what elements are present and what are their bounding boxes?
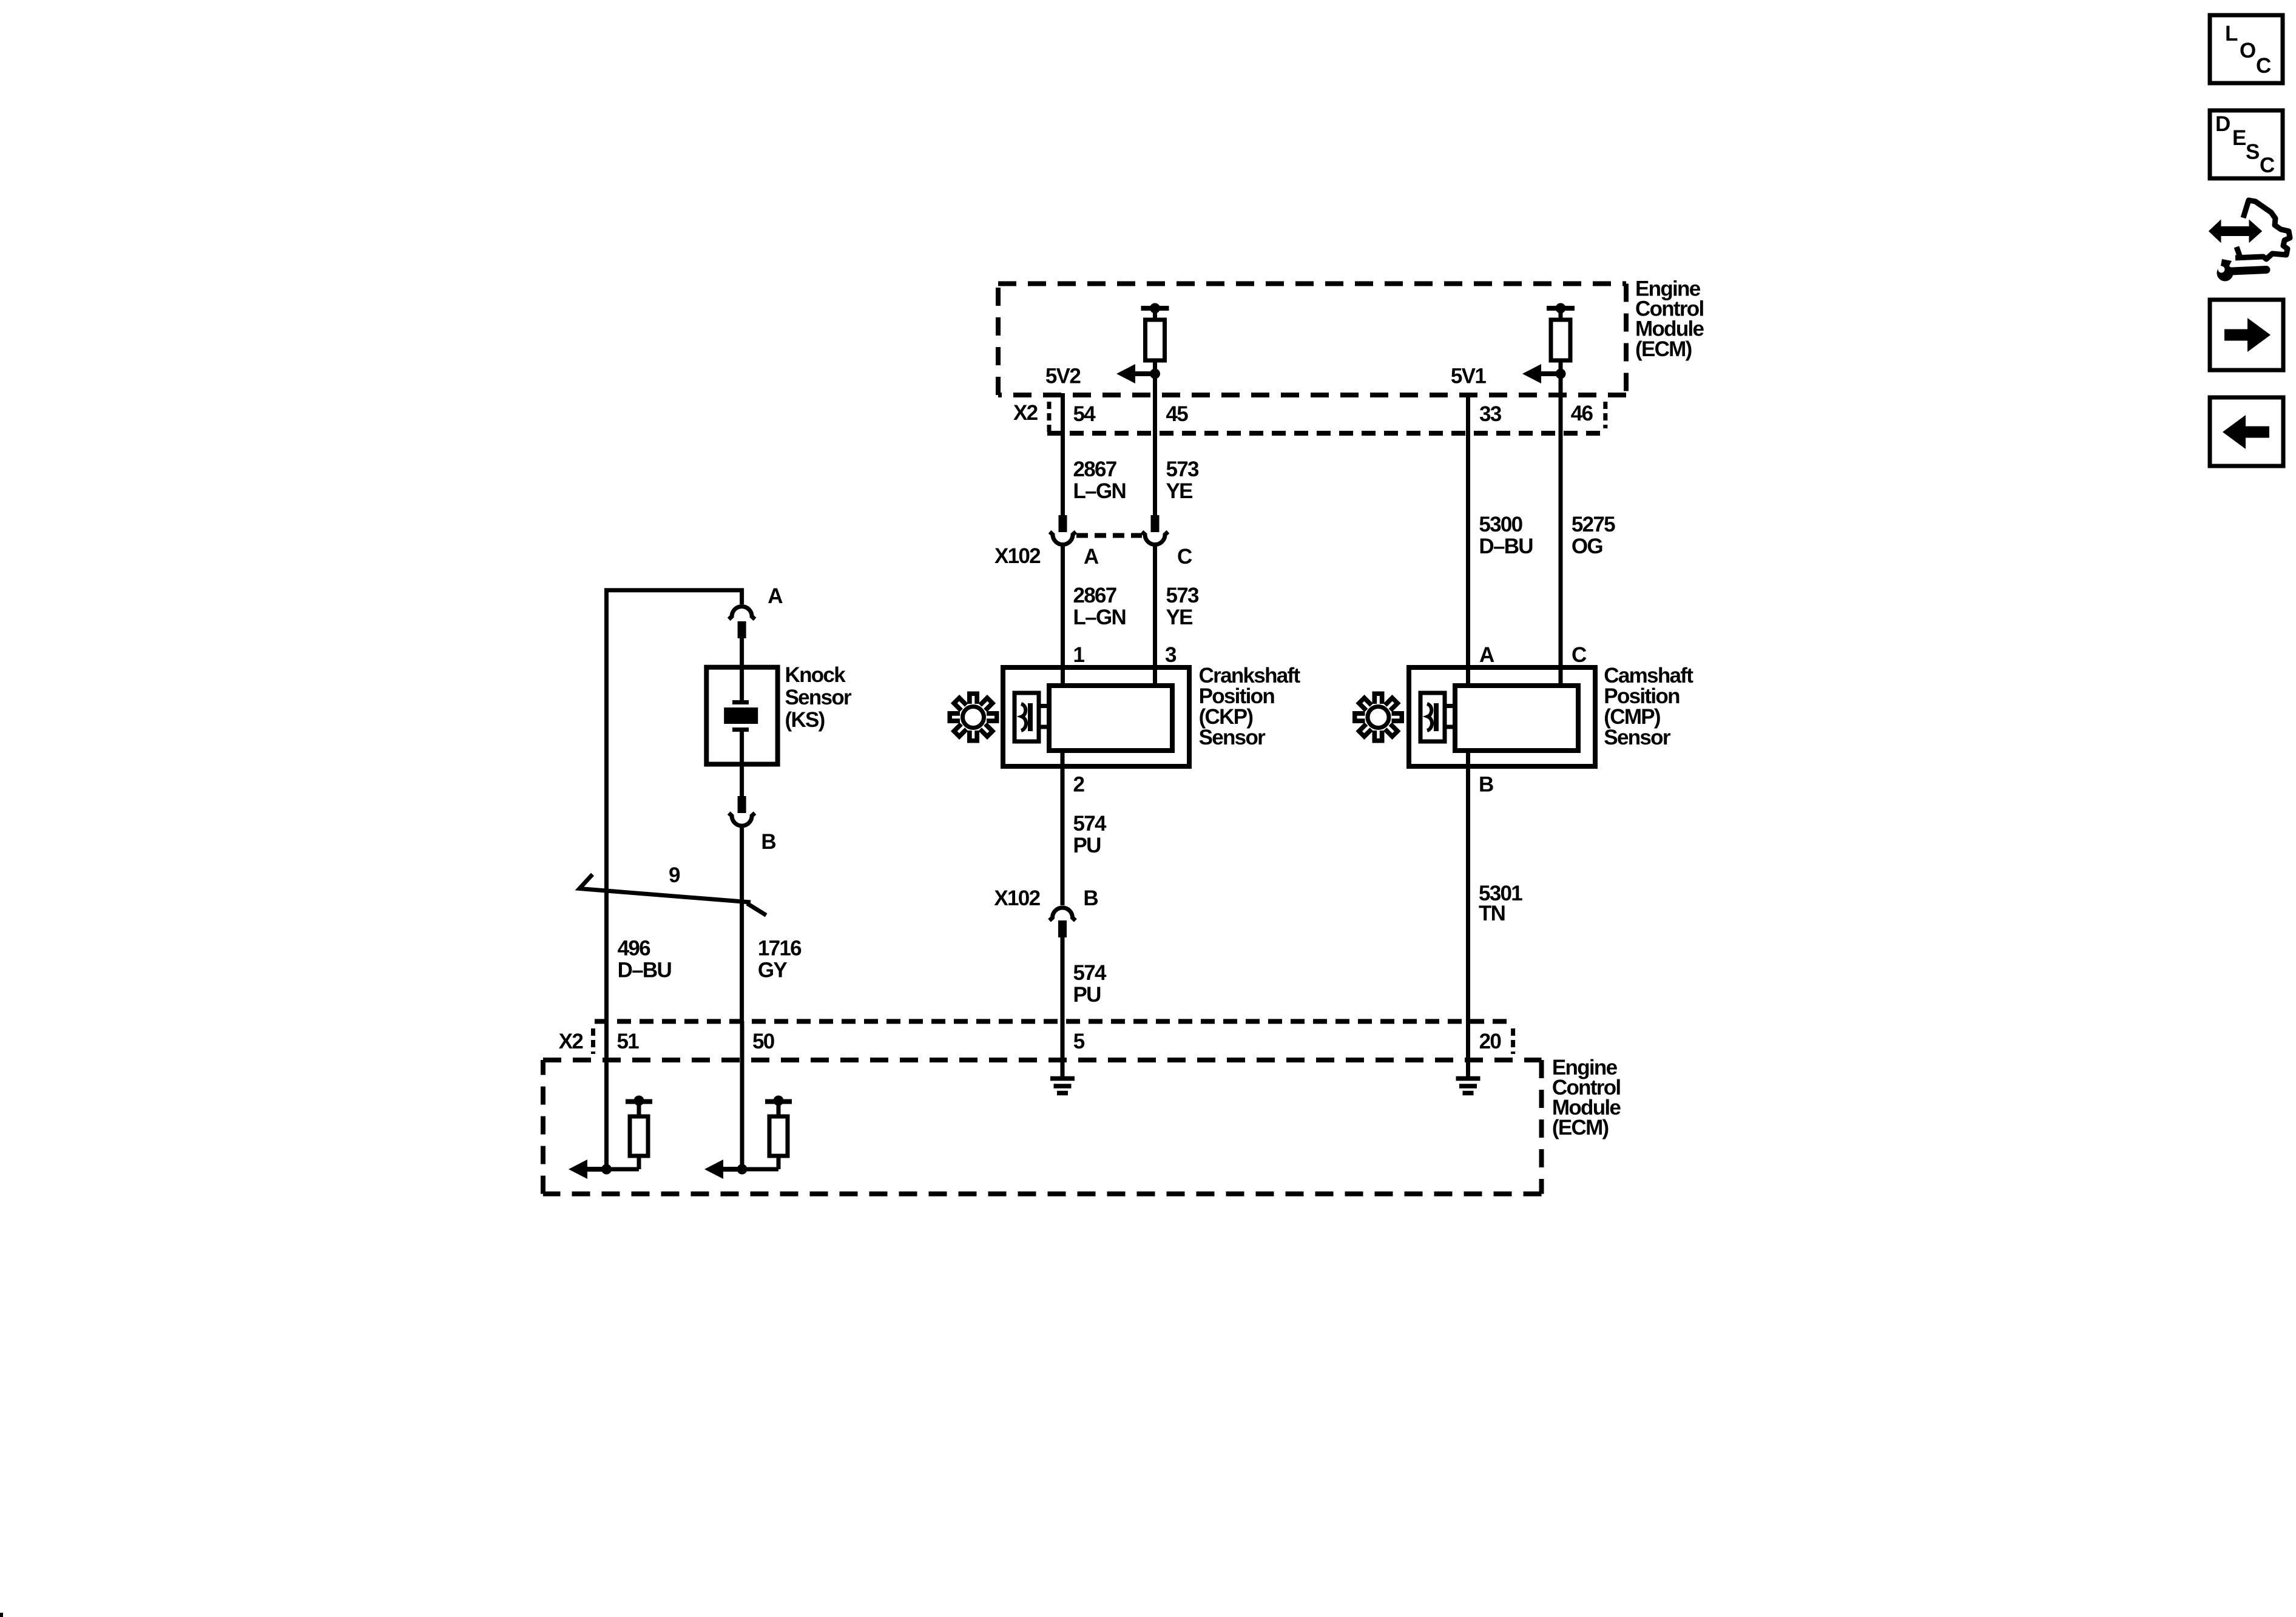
- label circuit 496 D-BU: [618, 937, 672, 982]
- wire X2 pin 5 to ground: [1061, 1021, 1065, 1079]
- svg-text:51: 51: [617, 1030, 640, 1053]
- svg-text:YE: YE: [1166, 479, 1193, 503]
- svg-text:Sensor: Sensor: [785, 686, 853, 709]
- icon box LOC: [2210, 15, 2283, 83]
- wire CKP pin 2 to X102 B: [1061, 751, 1065, 905]
- svg-text:9: 9: [669, 863, 680, 887]
- CKP sensor outer box: [1003, 667, 1189, 766]
- wire pin 54 (5V2 to X102 A): [1061, 393, 1065, 516]
- wire pin 45 (resistor to X102 C): [1153, 360, 1157, 516]
- connector KS pin A cup: [729, 607, 755, 619]
- twisted pair marker 9: [579, 874, 766, 915]
- CMP sensor outer box: [1409, 667, 1595, 766]
- connector X2 bottom row: [593, 1021, 1513, 1054]
- connector X2 top row: [1047, 402, 1608, 433]
- label circuit 5300 D-BU: [1479, 513, 1533, 558]
- svg-text:2: 2: [1073, 773, 1085, 797]
- svg-text:Sensor: Sensor: [1604, 726, 1671, 749]
- resistor bias on pin 51: [607, 1096, 653, 1170]
- svg-text:574: 574: [1073, 961, 1107, 985]
- wire CMP pin B to X2 pin 20 (5301 TN): [1466, 751, 1470, 1021]
- svg-text:46: 46: [1571, 402, 1593, 425]
- CMP sensor element box: [1455, 686, 1578, 751]
- ground pin 5: [1050, 1079, 1075, 1093]
- svg-text:D–BU: D–BU: [618, 959, 672, 982]
- svg-text:5V1: 5V1: [1451, 365, 1486, 388]
- svg-text:5275: 5275: [1572, 513, 1615, 536]
- wire knock sensor loop (pin A to ECM pin 51): [607, 590, 742, 1021]
- svg-text:20: 20: [1479, 1030, 1502, 1053]
- svg-text:45: 45: [1166, 402, 1189, 426]
- junction dot wire 45: [1150, 369, 1160, 379]
- ECM bottom dashed box: [543, 1060, 1542, 1194]
- svg-text:TN: TN: [1479, 902, 1505, 925]
- ground pin 20: [1456, 1079, 1481, 1093]
- junction dot pin 51: [601, 1164, 612, 1175]
- wire X2 pin 20 to ground: [1466, 1021, 1470, 1079]
- label circuit 2867 L-GN (upper): [1073, 457, 1126, 503]
- label circuit 5275 OG: [1572, 513, 1615, 558]
- label circuit 1716 GY: [758, 937, 802, 982]
- svg-text:(ECM): (ECM): [1635, 337, 1692, 361]
- svg-text:B: B: [761, 830, 775, 854]
- svg-text:A: A: [1479, 643, 1494, 667]
- svg-text:A: A: [1084, 545, 1099, 569]
- svg-text:E: E: [2232, 126, 2246, 150]
- svg-text:PU: PU: [1073, 983, 1101, 1007]
- signal arrow 5V1 reference: [1522, 364, 1560, 383]
- icon box forward arrow: [2210, 300, 2283, 370]
- label Knock Sensor (KS): [785, 663, 853, 732]
- svg-text:5300: 5300: [1479, 513, 1522, 536]
- icon box back arrow: [2210, 397, 2283, 466]
- CMP pickup coil box: [1420, 693, 1455, 741]
- svg-text:54: 54: [1073, 402, 1096, 426]
- svg-text:L: L: [2225, 22, 2238, 46]
- svg-text:C: C: [2256, 54, 2271, 78]
- Knock Sensor box: [706, 667, 777, 765]
- ECM top dashed box: [998, 284, 1626, 396]
- wire X102 C to CKP pin 3: [1153, 544, 1157, 686]
- svg-text:L–GN: L–GN: [1073, 479, 1126, 503]
- wire X2 pin 50 (1716 GY) into ECM: [740, 1021, 745, 1169]
- svg-text:573: 573: [1166, 584, 1200, 607]
- svg-text:B: B: [1479, 773, 1493, 797]
- svg-text:C: C: [1177, 545, 1192, 569]
- resistor pull-up on 5V1 circuit: [1547, 303, 1575, 361]
- label Engine Control Module (ECM) top: [1635, 277, 1704, 361]
- svg-text:X102: X102: [994, 886, 1040, 910]
- svg-text:PU: PU: [1073, 834, 1101, 857]
- CKP pickup coil box: [1015, 693, 1049, 741]
- svg-text:5: 5: [1073, 1030, 1085, 1053]
- icon connector service (arrow, connector outline, wrench): [2210, 200, 2290, 282]
- svg-text:Knock: Knock: [785, 663, 846, 687]
- label circuit 574 PU (lower): [1073, 961, 1107, 1007]
- svg-text:GY: GY: [758, 959, 788, 982]
- connector X102 pin C cup: [1142, 532, 1168, 545]
- svg-text:L–GN: L–GN: [1073, 606, 1126, 629]
- svg-text:1: 1: [1073, 643, 1085, 667]
- svg-text:1716: 1716: [758, 937, 802, 960]
- svg-text:X2: X2: [1013, 401, 1038, 425]
- svg-text:2867: 2867: [1073, 457, 1116, 481]
- signal arrow KS-: [704, 1160, 741, 1179]
- CKP reluctor gear icon: [948, 692, 999, 743]
- resistor pull-up on 5V2 circuit: [1141, 303, 1169, 361]
- dashed link X102 A to C: [1076, 533, 1142, 538]
- signal arrow KS+: [569, 1160, 606, 1179]
- label circuit 573 YE (upper): [1166, 457, 1200, 503]
- CMP reluctor gear icon: [1352, 692, 1404, 743]
- wire KS pin B lead: [740, 731, 744, 796]
- label Crankshaft Position (CKP) Sensor: [1199, 664, 1301, 749]
- svg-text:B: B: [1083, 886, 1098, 910]
- label circuit 2867 L-GN (lower): [1073, 584, 1126, 629]
- wire KS pin A lead: [740, 638, 744, 700]
- svg-text:574: 574: [1073, 812, 1107, 836]
- signal arrow 5V2 reference: [1116, 364, 1155, 383]
- svg-text:S: S: [2246, 140, 2259, 164]
- svg-text:2867: 2867: [1073, 584, 1116, 607]
- CKP sensor element box: [1049, 686, 1172, 751]
- svg-text:YE: YE: [1166, 606, 1193, 629]
- wire pin 46 (resistor to CMP C) 5275 OG: [1559, 360, 1563, 686]
- svg-text:Sensor: Sensor: [1199, 726, 1266, 749]
- connector X102 pin C male pin: [1151, 515, 1160, 532]
- knock sensor piezo element: [724, 703, 758, 730]
- svg-text:C: C: [1572, 643, 1587, 667]
- connector X102 pin B cup: [1050, 908, 1076, 920]
- wire KS pin B to X2 pin 50 (1716 GY): [740, 826, 744, 1021]
- svg-text:O: O: [2240, 39, 2255, 62]
- svg-text:A: A: [768, 584, 783, 608]
- label Engine Control Module (ECM) bottom: [1552, 1056, 1621, 1139]
- page corner mark: [0, 1613, 3, 1617]
- wire X102 A to CKP pin 1: [1061, 544, 1065, 686]
- connector KS pin B cup: [729, 813, 755, 826]
- svg-text:50: 50: [752, 1030, 775, 1053]
- svg-text:D–BU: D–BU: [1479, 535, 1533, 558]
- connector X102 pin A cup: [1050, 532, 1076, 545]
- label circuit 574 PU (upper): [1073, 812, 1107, 857]
- resistor bias on pin 50: [742, 1096, 792, 1170]
- svg-text:X2: X2: [559, 1030, 584, 1053]
- icon box DESC: [2210, 110, 2283, 178]
- svg-text:5V2: 5V2: [1045, 365, 1081, 388]
- label circuit 5301 TN: [1479, 882, 1522, 925]
- svg-text:(KS): (KS): [785, 708, 825, 732]
- svg-text:C: C: [2260, 154, 2275, 177]
- svg-text:X102: X102: [994, 544, 1041, 568]
- wire X2 pin 51 (496 D-BU) into ECM: [604, 1021, 609, 1169]
- connector X102 pin A male pin: [1059, 515, 1067, 532]
- wire X102 B to X2 pin 5: [1061, 937, 1065, 1021]
- svg-text:(ECM): (ECM): [1552, 1116, 1609, 1139]
- junction dot pin 50: [737, 1164, 748, 1175]
- junction dot wire 46: [1556, 369, 1566, 379]
- connector X102 pin B male pin: [1058, 920, 1067, 937]
- label Camshaft Position (CMP) Sensor: [1604, 664, 1693, 749]
- svg-text:OG: OG: [1572, 535, 1603, 558]
- svg-text:D: D: [2215, 112, 2230, 136]
- label circuit 573 YE (lower): [1166, 584, 1200, 629]
- connector KS pin A male pin: [738, 621, 746, 638]
- wire pin 33 (5V1 to CMP A) 5300 D-BU: [1466, 393, 1470, 686]
- svg-text:496: 496: [618, 937, 651, 960]
- connector KS pin B male pin: [738, 796, 746, 813]
- svg-text:33: 33: [1479, 402, 1502, 426]
- svg-text:573: 573: [1166, 457, 1200, 481]
- svg-text:3: 3: [1165, 643, 1177, 667]
